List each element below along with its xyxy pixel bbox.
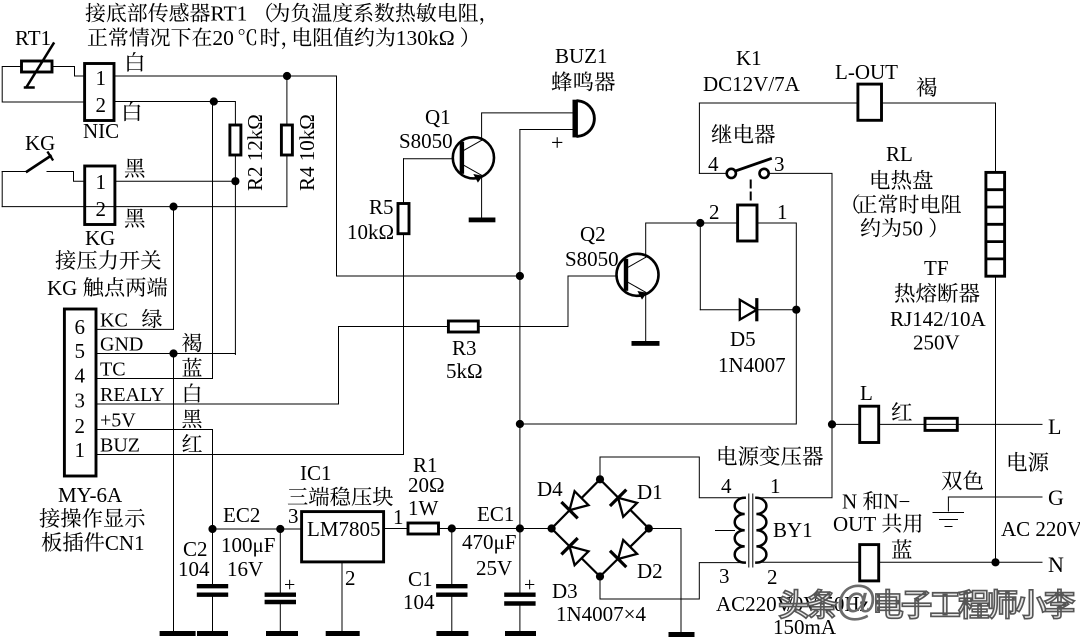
svg-text:D1: D1: [637, 480, 663, 504]
svg-text:3: 3: [75, 389, 86, 413]
wire buzzer negative to +12V rail: [520, 129, 574, 131]
svg-text:D2: D2: [637, 559, 663, 583]
fuse TF (RJ142/10A): [925, 418, 957, 430]
connector NIC: [85, 64, 114, 121]
svg-text:4: 4: [721, 474, 732, 498]
note: operation display board line 1: [40, 508, 60, 528]
capacitor C1: [451, 529, 453, 585]
ground bridge negative: [669, 632, 695, 637]
svg-text:L: L: [1048, 414, 1061, 439]
wire KC to KG pin2: [173, 207, 175, 330]
svg-text:3: 3: [774, 152, 785, 176]
transistor Q2 body: [617, 254, 659, 296]
ground MY-6A GND: [160, 631, 196, 636]
svg-text:D4: D4: [537, 477, 563, 501]
svg-text:1: 1: [393, 505, 404, 529]
wire R4 leads: [286, 76, 288, 125]
junction GND to ground: [169, 349, 177, 357]
wire RT1 left bracket to NIC pin2: [2, 67, 84, 103]
wire bridge bottom feed: [599, 577, 601, 600]
svg-text:3: 3: [719, 564, 730, 588]
note: pressure switch line 1: [56, 250, 76, 270]
wire R3 to Q2 base: [568, 276, 617, 327]
resistor R2: [230, 125, 241, 155]
svg-text:1: 1: [96, 66, 107, 90]
svg-text:10kΩ: 10kΩ: [347, 220, 394, 244]
svg-text:GND: GND: [100, 334, 143, 356]
relay contact blade: [736, 159, 771, 171]
svg-text:AC 220V: AC 220V: [1001, 517, 1080, 541]
relay contact 4: [727, 169, 736, 178]
svg-text:2: 2: [767, 565, 778, 589]
svg-text:4: 4: [708, 152, 719, 176]
wire BUZ row: [96, 234, 404, 455]
wire Q2 emitter: [645, 292, 647, 341]
label 电源 (power): [1009, 452, 1027, 471]
svg-text:RT1: RT1: [15, 26, 51, 50]
svg-text:EC1: EC1: [477, 502, 514, 526]
wire 7805 output row: [213, 528, 302, 530]
wire +5V row: [96, 430, 213, 530]
label wire-color 白: [185, 383, 201, 402]
svg-text:5kΩ: 5kΩ: [446, 359, 483, 383]
junction C2 top: [208, 525, 216, 533]
svg-text:BY1: BY1: [773, 518, 813, 542]
wire Q1 base: [404, 158, 463, 160]
ground EC1: [505, 631, 536, 636]
wire coil pin1 to +12V rail: [520, 223, 796, 424]
label wire-color black (pin1): [125, 158, 145, 177]
label wire-color 绿: [142, 309, 162, 328]
wire GND to ground rail: [173, 354, 175, 632]
svg-text:KG: KG: [47, 276, 77, 300]
svg-text:104: 104: [178, 557, 210, 581]
svg-text:20Ω: 20Ω: [408, 473, 445, 497]
IC U1 LM7805: [302, 512, 384, 562]
earth ground symbol: [948, 497, 973, 511]
svg-text:104: 104: [403, 590, 435, 614]
transformer BY1 primary winding: [735, 498, 745, 563]
label 三端稳压块 (3-terminal regulator): [288, 488, 308, 505]
svg-text:2: 2: [96, 197, 107, 221]
connector N-OUT: [860, 545, 879, 581]
connector KG: [85, 166, 115, 225]
ground Q1 emitter: [469, 218, 496, 223]
wire Q1 collector to buzzer: [482, 113, 574, 140]
svg-text:CN1: CN1: [105, 531, 145, 555]
diode D2: [618, 540, 637, 559]
junction R2 bottom: [231, 177, 239, 185]
svg-text:R4 10kΩ: R4 10kΩ: [295, 114, 319, 191]
junction contact3/transformer/L: [828, 420, 836, 428]
label wire-color blue (N line): [892, 539, 912, 558]
junction +12V rail: [516, 420, 524, 428]
resistor R3: [448, 321, 478, 332]
thermistor RT1: [22, 61, 53, 72]
svg-text:16V: 16V: [227, 557, 263, 581]
label 热熔断器 (thermal fuse): [895, 283, 915, 303]
wire KG pin2 line: [2, 206, 287, 208]
wire D5 anode: [699, 223, 701, 310]
junction bridge top: [596, 475, 604, 483]
label 继电器 (relay): [712, 124, 732, 143]
label 双色 (dual color): [942, 471, 962, 490]
svg-text:IC1: IC1: [300, 461, 332, 485]
wire REALY row: [96, 327, 339, 405]
svg-text:R2 12kΩ: R2 12kΩ: [243, 114, 267, 191]
junction bridge left: [548, 524, 556, 532]
svg-text:+: +: [524, 574, 535, 596]
transformer center tap stub: [716, 530, 735, 532]
svg-text:130kΩ: 130kΩ: [396, 26, 455, 50]
capacitor EC1 (polarized): [519, 529, 521, 593]
junction TC tap: [210, 97, 218, 105]
svg-text:1N4007: 1N4007: [718, 353, 786, 377]
wire contact 3 to L line: [756, 173, 832, 497]
svg-text:KG: KG: [85, 226, 115, 250]
svg-text:1W: 1W: [408, 496, 439, 520]
svg-text:4: 4: [75, 364, 86, 388]
label wire-color 蓝: [182, 358, 201, 377]
svg-text:OUT: OUT: [833, 512, 876, 536]
wire 7805 input row: [384, 528, 408, 530]
label wire-color 褐: [182, 333, 202, 352]
svg-text:25V: 25V: [476, 556, 512, 580]
diode D3: [570, 546, 589, 565]
label wire-color 红: [182, 434, 201, 452]
wire NIC pin1 net to node A: [114, 76, 520, 276]
note: sensor description line 2: [88, 28, 107, 46]
junction D5 cathode: [792, 306, 800, 314]
svg-text:R3: R3: [452, 336, 477, 360]
wire R1 to bridge left: [439, 528, 552, 530]
svg-text:TC: TC: [100, 359, 126, 381]
wire RT1 right to NIC pin1: [52, 67, 85, 77]
label wire-color red (L line): [892, 402, 912, 420]
wire Q2 collector to relay coil: [646, 223, 738, 257]
svg-text:L: L: [860, 381, 873, 405]
wire relay contact feed: [698, 103, 700, 173]
svg-text:BUZ: BUZ: [100, 435, 140, 457]
label wire-color 黑: [182, 409, 201, 428]
note: heater resistance line1: [853, 194, 859, 214]
relay contact 3: [760, 169, 769, 178]
svg-text:D3: D3: [552, 579, 578, 603]
wire bridge top to transformer pin 4: [600, 457, 745, 498]
svg-text:R5: R5: [369, 195, 394, 219]
svg-text:2: 2: [75, 414, 86, 438]
svg-text:DC12V/7A: DC12V/7A: [703, 72, 801, 96]
svg-text:1: 1: [75, 438, 86, 462]
label 电源变压器 (power transformer): [719, 446, 737, 465]
svg-text:S8050: S8050: [399, 129, 453, 153]
label wire-color black (pin2): [125, 208, 145, 227]
wire GND row: [96, 353, 235, 355]
diode D5: [740, 300, 757, 320]
svg-text:2: 2: [96, 93, 107, 117]
watermark 头条@电子工程师小李: [779, 590, 808, 619]
ground C1: [436, 631, 468, 636]
svg-text:1: 1: [777, 200, 788, 224]
label 电热盘 (heater plate): [872, 170, 890, 189]
svg-text:@: @: [835, 577, 878, 624]
svg-text:EC2: EC2: [223, 503, 260, 527]
junction KC tap: [169, 203, 177, 211]
svg-text:6: 6: [75, 315, 86, 339]
svg-text:K1: K1: [736, 46, 762, 70]
svg-text:5: 5: [75, 339, 86, 363]
svg-text:Q2: Q2: [580, 222, 606, 246]
wire Q1 emitter: [481, 175, 483, 217]
svg-text:TF: TF: [924, 256, 949, 280]
label 蜂鸣器 (buzzer): [552, 71, 572, 91]
svg-text:KC: KC: [100, 309, 128, 331]
resistor R1: [408, 523, 439, 534]
svg-text:1: 1: [770, 474, 781, 498]
wire transformer pin 3 to bridge bottom: [600, 563, 745, 599]
svg-text:RL: RL: [886, 142, 913, 166]
wire L-OUT feed: [699, 102, 995, 104]
heater plate RL: [986, 172, 1005, 276]
svg-text:G: G: [1048, 485, 1064, 510]
svg-text:N: N: [842, 490, 857, 514]
transformer core: [748, 494, 750, 567]
wire TC row: [96, 102, 213, 379]
svg-text:3: 3: [288, 504, 299, 528]
svg-text:50: 50: [902, 217, 923, 241]
svg-text:RT1: RT1: [210, 2, 247, 26]
transistor Q1 body: [453, 137, 494, 178]
ground IC1 pin2: [326, 631, 360, 636]
resistor R5: [403, 159, 405, 204]
wire to heater RL: [995, 103, 997, 172]
ground EC2: [266, 631, 298, 636]
capacitor C2: [212, 529, 214, 584]
connector L-OUT: [858, 84, 882, 120]
svg-text:REALY: REALY: [100, 384, 165, 406]
wire NIC pin2 to R2: [114, 102, 235, 126]
svg-text:100μF: 100μF: [221, 533, 275, 557]
connector L: [860, 406, 879, 442]
wire KG pin1 line: [115, 180, 235, 182]
svg-text:20: 20: [212, 26, 234, 50]
svg-text:S8050: S8050: [565, 247, 619, 271]
diode D4: [570, 491, 589, 510]
wire KC row: [96, 328, 174, 330]
wire switch to KG pin1: [74, 172, 85, 182]
wire KG left bracket: [1, 172, 3, 207]
resistor R4: [281, 125, 292, 155]
junction relay coil pin2 / D5: [696, 219, 704, 227]
wire +12V rail vertical: [519, 130, 521, 529]
svg-text:KG: KG: [25, 131, 55, 155]
buzzer BUZ1: [573, 100, 578, 138]
wire heater to N line: [995, 276, 997, 562]
svg-text:RJ142/10A: RJ142/10A: [890, 307, 987, 331]
capacitor EC2 (polarized): [279, 529, 281, 593]
note: sensor description line 1: [86, 3, 106, 22]
svg-text:N−: N−: [883, 490, 910, 514]
relay coil K1: [738, 205, 757, 241]
svg-text:1N4007×4: 1N4007×4: [556, 602, 647, 626]
svg-text:C1: C1: [408, 567, 433, 591]
svg-text:MY-6A: MY-6A: [58, 483, 123, 507]
node A junction on +12V rail: [516, 272, 524, 280]
junction bridge right: [645, 524, 653, 532]
svg-text:1: 1: [96, 170, 107, 194]
switch KG: [2, 171, 27, 173]
wire 7805 pin2 to ground: [341, 562, 343, 631]
wire L line: [832, 423, 1042, 425]
svg-text:BUZ1: BUZ1: [555, 44, 608, 68]
svg-text:2: 2: [709, 200, 720, 224]
wire G line: [948, 496, 1042, 498]
ground Q2 emitter: [632, 341, 660, 346]
label wire-color white (pin1): [127, 52, 143, 72]
wire N line: [756, 561, 1042, 563]
junction EC2 top: [276, 525, 284, 533]
svg-text:L-OUT: L-OUT: [835, 60, 898, 84]
svg-text:D5: D5: [730, 327, 756, 351]
relay actuation dashed link: [750, 181, 752, 204]
connector MY-6A (CN1): [64, 309, 96, 476]
svg-text:NIC: NIC: [83, 119, 119, 143]
junction C1 top: [448, 524, 456, 532]
note: operation display board line 2: [42, 532, 62, 552]
wire bridge edges: [552, 479, 649, 576]
svg-text:Q1: Q1: [425, 105, 451, 129]
diode D1: [618, 498, 637, 517]
wire R2 bottom to GND row: [234, 155, 236, 355]
svg-text:+: +: [284, 574, 295, 596]
junction R4 top: [283, 72, 291, 80]
label wire-color brown (L-OUT): [917, 77, 937, 97]
junction heater / N line: [991, 558, 999, 566]
junction bridge bottom: [596, 572, 604, 580]
junction EC1 top: [516, 524, 524, 532]
svg-text:+: +: [551, 130, 563, 155]
svg-text:2: 2: [345, 566, 356, 590]
label wire-color white (pin2): [124, 101, 140, 121]
svg-text:N: N: [1048, 552, 1064, 577]
transformer BY1 secondary winding: [756, 498, 766, 563]
svg-text:470μF: 470μF: [462, 530, 516, 554]
svg-text:250V: 250V: [913, 331, 960, 355]
svg-text:+5V: +5V: [100, 410, 136, 432]
note: heater resistance line2: [861, 218, 880, 237]
ground C2: [197, 631, 228, 636]
wire R3 row: [339, 326, 449, 328]
svg-text:LM7805: LM7805: [307, 517, 381, 541]
wire bridge right to ground: [649, 529, 681, 633]
